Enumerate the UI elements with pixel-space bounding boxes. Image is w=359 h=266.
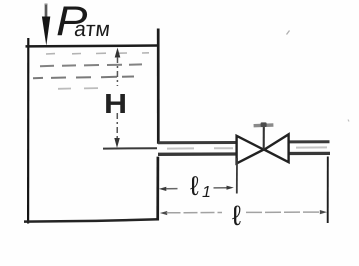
- water surface dash row 4: [58, 87, 98, 90]
- label l1: [190, 171, 199, 202]
- P_atm arrow head: [42, 17, 50, 46]
- stray pencil speck right: [348, 120, 349, 122]
- pipe bore shade dashes: [167, 147, 327, 148]
- l1 extension line below valve: [236, 158, 238, 194]
- l1 dimension right arrow: [214, 187, 229, 189]
- l dimension right segment: [246, 211, 321, 213]
- tank right wall upper: [157, 29, 160, 144]
- valve right triangle: [264, 134, 288, 162]
- pipe top wall: [158, 141, 237, 144]
- H dimension base line: [103, 147, 157, 149]
- label H: [104, 88, 127, 120]
- valve handle: [254, 123, 274, 127]
- stray pencil speck upper right: [287, 31, 290, 35]
- P_atm arrow shaft: [45, 4, 48, 19]
- pipe bottom wall: [158, 152, 237, 156]
- label l: [232, 200, 241, 232]
- dimension H down arrow: [114, 138, 120, 148]
- dimension H lower dashed line: [116, 113, 118, 138]
- tank bottom wall: [24, 219, 159, 221]
- l dimension right extension line: [327, 157, 329, 224]
- dimension H upper dashed line: [116, 57, 118, 86]
- water surface dash row 2: [40, 64, 142, 66]
- label P_атм: [56, 0, 87, 45]
- dimension H up arrow: [115, 48, 121, 58]
- l1 dimension left arrow: [159, 187, 167, 191]
- water surface dash row 1: [46, 53, 149, 54]
- valve left triangle: [237, 136, 264, 164]
- tank left wall: [27, 38, 29, 224]
- water surface dash row 3: [33, 77, 134, 79]
- valve stem: [263, 127, 265, 150]
- tank right wall lower: [156, 157, 159, 221]
- tank top water-surface line: [26, 44, 159, 47]
- l dimension left arrow: [160, 211, 167, 215]
